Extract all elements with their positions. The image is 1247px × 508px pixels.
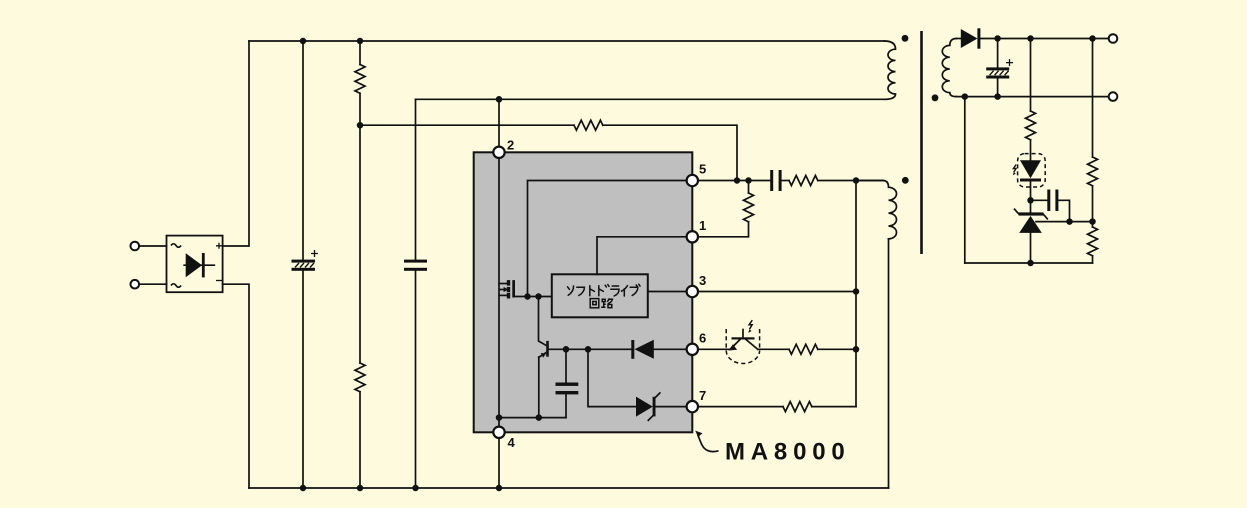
transformer T1 primary winding [885, 41, 896, 99]
wire R4 to aux winding [818, 180, 883, 182]
wire pin2 up [498, 99, 500, 147]
node bottom rail x499 [496, 485, 503, 492]
wire R10 bottom [1092, 256, 1094, 263]
wire MOSFET source to soft-drive box [514, 296, 552, 298]
capacitor C2 [404, 260, 427, 271]
capacitor C1 electrolytic [292, 250, 319, 271]
diode D2 internal [631, 340, 654, 359]
node ref x1069.5 [1066, 218, 1073, 225]
pin 5 [687, 162, 707, 187]
wire cap C3 bottom lead [565, 394, 567, 417]
node feedback rail x1030.5 [1027, 260, 1034, 267]
wire x360 bottom lead [359, 392, 361, 488]
resistor R1 [355, 65, 365, 94]
node x856 pin6 [853, 346, 860, 353]
wire y125 right segment down to pin5 rail [603, 125, 737, 180]
wire LED to ZD2 [1030, 182, 1032, 214]
resistor R6 [783, 402, 812, 412]
wire ZD2 ref [1036, 221, 1093, 223]
optocoupler phototransistor PC1 [726, 320, 759, 363]
wire y99 horizontal [416, 98, 885, 100]
wire x360 top lead [359, 41, 361, 65]
resistor R7 [789, 344, 818, 354]
wire pin5 right [698, 180, 771, 182]
wire C4 to R4 [782, 180, 789, 182]
capacitor C6 [1047, 190, 1058, 212]
svg-text:7: 7 [699, 388, 706, 403]
node output rail x997.6 [994, 35, 1001, 42]
wire cap C3 top lead [565, 349, 567, 382]
node output rail x1030.5 [1027, 35, 1034, 42]
shunt regulator ZD2 [1015, 209, 1048, 233]
resistor R8 [1026, 111, 1036, 140]
wire Q1 base to pin6 line [549, 348, 632, 350]
svg-text:MA8000: MA8000 [725, 439, 851, 466]
wire pin3 right [698, 291, 856, 293]
wire R6 to x856 [812, 406, 856, 408]
svg-text:2: 2 [507, 138, 514, 153]
node bottom rail x303 [300, 485, 307, 492]
wire C5 top lead [997, 39, 999, 68]
wire right divider upper [1092, 39, 1094, 158]
node secondary bottom x964.8 [962, 93, 969, 100]
node y99 x499 [496, 96, 503, 103]
IC U1 MA8000 body [474, 152, 693, 432]
T1 secondary polarity dot [932, 94, 939, 101]
wire aux winding down to bottom rail [888, 239, 890, 488]
wire pin1 internal [597, 237, 687, 274]
pin 7 [687, 388, 707, 412]
text soft drive line1 (katakana) [568, 284, 641, 296]
wire y125 left segment [360, 124, 574, 126]
wire D2 to pin6 [654, 348, 687, 350]
node x856 pin3 [853, 288, 860, 295]
pin 6 [687, 331, 707, 355]
transistor Q1 [539, 341, 549, 358]
resistor R9 [1088, 157, 1098, 186]
wire x538.5 down to Q1 collector [539, 297, 547, 346]
wire feedback bottom rail [965, 262, 1093, 264]
svg-text:1: 1 [699, 218, 706, 233]
wire x416 lower [415, 271, 417, 488]
wire comp cap right lead [1058, 200, 1069, 221]
wire R7 to x856 [818, 348, 856, 350]
transformer T1 secondary winding [942, 39, 956, 97]
svg-text:5: 5 [699, 162, 706, 177]
T1 primary polarity dot [902, 35, 909, 42]
resistor R3 [574, 120, 603, 130]
resistor R4 [789, 176, 818, 186]
node x360 y125 [357, 122, 364, 129]
node source junction x538.5 [535, 293, 542, 300]
wire pin4 to bottom rail [498, 432, 500, 488]
node x856 top [853, 177, 860, 184]
T1 aux polarity dot [902, 177, 909, 184]
node top rail x303 [300, 38, 307, 45]
wire top rail [249, 40, 885, 42]
node pin5 rail x737 [734, 177, 741, 184]
wire x360 middle [359, 93, 361, 363]
text soft drive line2 (kanji) [590, 298, 612, 307]
wire x588 down to zener line [588, 349, 636, 406]
wire R9 to node [1092, 186, 1094, 227]
svg-text:3: 3 [699, 273, 706, 288]
node top rail x360 [357, 38, 364, 45]
wire x303 lower [302, 271, 304, 488]
wire bridge minus down to bottom rail [223, 284, 249, 488]
wire secondary bottom rail [956, 96, 1108, 98]
wire optocoupler to R7 [758, 348, 789, 350]
transformer T1 aux winding [856, 181, 897, 239]
wire J1 to bridge [139, 245, 166, 247]
wire ZD2 bottom [1030, 233, 1032, 263]
node internal bottom x499 [496, 414, 503, 421]
output terminal J4 [1109, 92, 1118, 101]
wire comp cap left lead [1031, 199, 1048, 201]
wire x416 upper [415, 99, 417, 259]
pin 3 [687, 273, 707, 297]
node base wire x588 [585, 346, 592, 353]
input terminal J1 [131, 242, 140, 251]
node LED chain x1030.5 y200.3 [1027, 197, 1034, 204]
zener ZD1 internal [636, 393, 660, 420]
wire R8 to LED [1030, 140, 1032, 161]
wire bridge plus up to top rail [223, 41, 249, 246]
resistor R2 [355, 363, 365, 392]
node output rail x1092.5 [1089, 35, 1096, 42]
bridge rectifier BR1 [167, 236, 223, 293]
node pin5 rail x748.5 [745, 177, 752, 184]
node bottom rail x416 [412, 485, 419, 492]
svg-text:6: 6 [699, 331, 706, 346]
pin 4 [493, 427, 515, 450]
transformer T1 core [920, 31, 923, 254]
wire pin6 to optocoupler [698, 348, 731, 350]
node base wire x566 [563, 346, 570, 353]
wire J2 to bridge [139, 283, 166, 285]
wire left rail of feedback network [964, 97, 966, 263]
wire C5 bottom lead [997, 79, 999, 97]
soft drive block [552, 274, 648, 317]
node bottom rail x360 [357, 485, 364, 492]
resistor R10 [1088, 227, 1098, 256]
svg-text:4: 4 [508, 435, 516, 450]
wire secondary top to diode [956, 38, 961, 40]
optocoupler LED PC1 [1013, 154, 1045, 187]
diode D3 output [961, 28, 981, 48]
wire ZD1 to pin7 [655, 406, 686, 408]
wire x856 vertical [855, 181, 857, 407]
resistor R5 [698, 181, 754, 237]
node ref x1092.5 [1089, 218, 1096, 225]
node drain junction [524, 293, 531, 300]
capacitor C5 electrolytic [986, 59, 1013, 78]
capacitor C3 [556, 383, 579, 395]
wire LED chain upper [1030, 39, 1032, 112]
wire output top rail [980, 38, 1108, 40]
wire internal pin2 to pin4 [498, 152, 500, 432]
output terminal J3 [1109, 34, 1118, 43]
wire internal pin5 to drain corner [528, 181, 687, 297]
callout arrow to U1 [695, 431, 718, 452]
pin 1 [687, 218, 707, 243]
MOSFET M1 [499, 280, 515, 298]
wire bottom rail [249, 487, 889, 489]
wire pin3 internal [648, 291, 687, 293]
wire internal bottom [499, 417, 566, 419]
capacitor C4 [770, 170, 781, 191]
node internal bottom x538.8 [536, 414, 543, 421]
wire x303 upper [302, 41, 304, 260]
pin 2 [493, 138, 514, 159]
input terminal J2 [131, 280, 140, 289]
node secondary bottom x997.6 [994, 93, 1001, 100]
wire Q1 emitter down [538, 357, 540, 418]
wire pin7 right [698, 406, 783, 408]
